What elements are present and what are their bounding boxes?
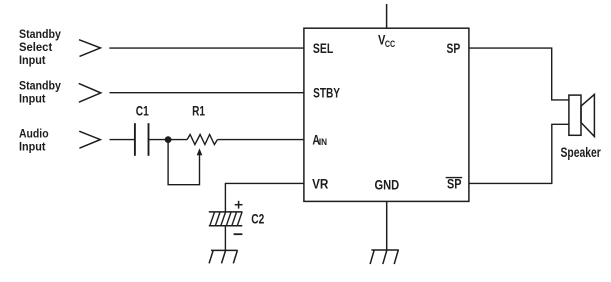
capacitor C2 (polarized, hatched) (209, 212, 243, 226)
wire: STBY input (110, 92, 304, 94)
C2 minus polarity mark (234, 233, 243, 235)
wire: GND pin to ground (386, 201, 388, 250)
svg-text:VR: VR (312, 177, 329, 192)
pin label SP-bar (446, 176, 463, 191)
label R1 (192, 104, 205, 119)
ground (below GND pin) (370, 250, 399, 264)
op-amp IC U1 (amplifier block) (304, 28, 469, 201)
svg-text:Standby: Standby (19, 79, 61, 93)
label C2 (251, 212, 264, 227)
wire: VCC supply stub (386, 4, 388, 28)
pin label VR (312, 177, 329, 192)
wire: VR pin to C2 branch (225, 183, 304, 212)
svg-text:C2: C2 (251, 212, 264, 227)
pin label AIN (312, 133, 327, 148)
wire: R1 to AIN pin (217, 139, 304, 141)
label Speaker (561, 145, 602, 160)
pin label GND (375, 177, 400, 192)
pin label VCC (378, 33, 396, 49)
node label: Standby Select Input (19, 27, 61, 67)
wire: SP to speaker (469, 48, 569, 100)
pin label SEL (313, 41, 333, 56)
svg-text:IN: IN (319, 137, 327, 147)
svg-text:R1: R1 (192, 104, 205, 119)
input chevron: Standby (79, 83, 101, 102)
svg-text:Input: Input (19, 53, 46, 67)
svg-text:Speaker: Speaker (561, 145, 602, 160)
ground (below C2) (209, 250, 238, 263)
svg-text:CC: CC (385, 39, 396, 49)
svg-text:GND: GND (375, 177, 400, 192)
input chevron: Standby Select (79, 40, 100, 57)
C2 plus polarity mark (235, 201, 243, 209)
svg-text:SEL: SEL (313, 41, 333, 56)
node label: Audio Input (19, 127, 49, 154)
svg-text:SP: SP (447, 41, 461, 56)
pin label SP (447, 41, 461, 56)
svg-text:SP: SP (447, 176, 462, 191)
capacitor C1 (135, 123, 149, 156)
svg-text:STBY: STBY (313, 86, 340, 101)
svg-text:Select: Select (19, 40, 52, 54)
svg-text:C1: C1 (136, 104, 149, 119)
junction node dot (165, 136, 172, 143)
svg-text:Audio: Audio (19, 127, 49, 141)
wiper arrow of R1 (168, 140, 202, 185)
wire: audio input to C1 (110, 139, 135, 141)
wire: SEL input (109, 47, 304, 49)
wire: C2 to ground (224, 226, 226, 251)
input chevron: Audio (79, 131, 100, 148)
label C1 (136, 104, 149, 119)
speaker (569, 94, 595, 136)
resistor R1 (187, 135, 217, 145)
node label: Standby Input (19, 79, 61, 106)
svg-text:Standby: Standby (19, 27, 61, 41)
wire: C1 to R1 (149, 139, 188, 141)
pin label STBY (313, 86, 340, 101)
wire: SP-bar to speaker (469, 124, 569, 183)
svg-text:Input: Input (19, 140, 46, 154)
svg-text:Input: Input (19, 92, 46, 106)
